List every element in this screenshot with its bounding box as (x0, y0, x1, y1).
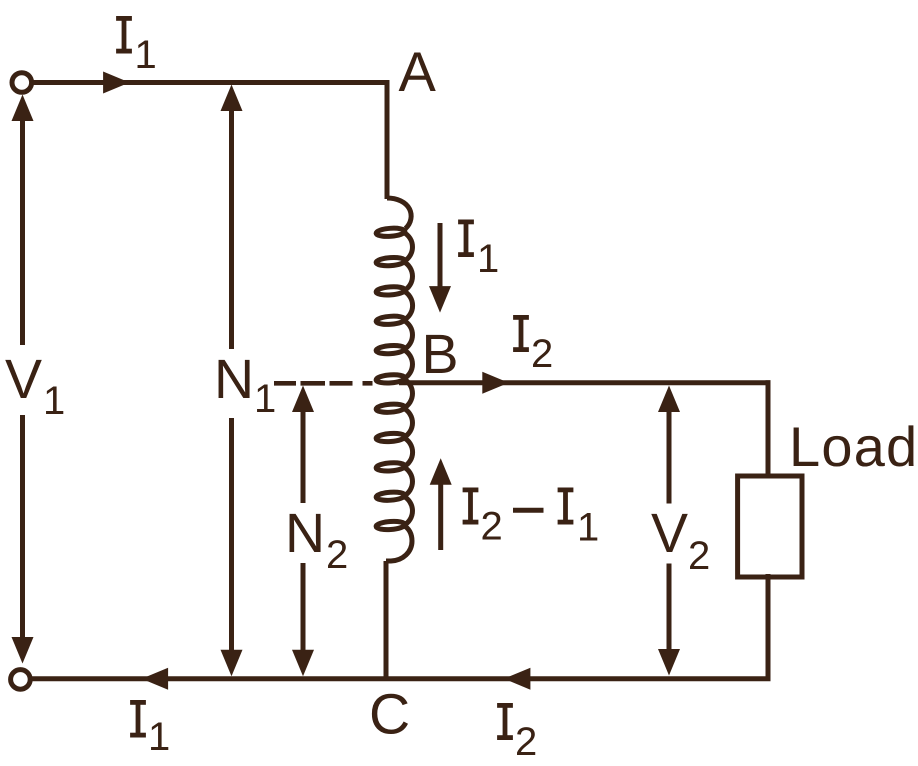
I1 arrow inside (down) (438, 223, 443, 290)
label I1 top (116, 16, 132, 54)
wire: node A down to coil top (385, 80, 390, 199)
label C (372, 694, 408, 734)
label I1 bottom (130, 700, 146, 738)
arrowhead I1 on top wire (103, 72, 130, 94)
arrowhead I2 on tap wire (482, 372, 509, 394)
autotransformer winding coil (387, 198, 411, 229)
wire top: input terminal to node A (30, 80, 390, 85)
N2 turns double arrow (301, 408, 306, 503)
N1 turns double arrow (229, 105, 234, 349)
label V2 (651, 514, 688, 552)
I2-I1 arrow inside (up) (438, 482, 443, 550)
label A (399, 52, 436, 91)
label V1 (5, 360, 42, 398)
label N1 (219, 360, 250, 398)
wire: coil bottom to node C (384, 561, 389, 681)
label N2 (290, 514, 321, 552)
dashed tap line from N1 to coil (274, 381, 373, 386)
input terminal bottom circle (11, 670, 31, 690)
input terminal top circle (12, 73, 32, 93)
label I2-I1 (463, 488, 479, 525)
wire: tap B to right side (399, 380, 771, 385)
arrowhead I2 bottom wire (504, 668, 531, 690)
load resistor rectangle (738, 476, 802, 577)
V1 voltage double arrow (20, 110, 25, 345)
label I2 top (513, 315, 529, 352)
wire bottom (30, 676, 771, 681)
V2 voltage double arrow (667, 408, 672, 504)
arrowhead I1 bottom wire (142, 668, 169, 690)
label Load (794, 427, 819, 466)
label I1 mid (458, 220, 474, 258)
label I2 bottom (497, 703, 513, 740)
wire: right vertical below load (766, 574, 771, 681)
label B (426, 335, 456, 373)
wire: right vertical above load (766, 380, 771, 478)
